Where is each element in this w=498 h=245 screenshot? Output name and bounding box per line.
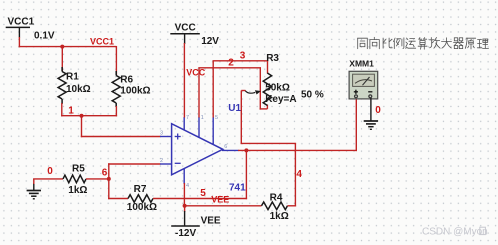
wire feedback vertical to output [245, 150, 247, 199]
svg-text:6: 6 [224, 144, 227, 150]
value 50 % [301, 90, 324, 101]
junction VEE node [183, 204, 187, 208]
value 1k&#937; [68, 185, 87, 196]
wire VCC to pin7 [183, 43, 185, 118]
node label 0 [47, 166, 53, 177]
wire pin4 to VEE junction [183, 183, 185, 207]
power VCC1 0.1V supply [6, 27, 30, 37]
wire up to multimeter terminal [355, 99, 357, 151]
svg-text:VCC: VCC [186, 68, 206, 78]
svg-text:50 %: 50 % [301, 90, 324, 101]
wire R6 top lead [115, 46, 117, 76]
svg-text:100kΩ: 100kΩ [120, 85, 150, 96]
wire R6 bottom lead [115, 106, 117, 116]
junction node 6 [107, 177, 111, 181]
wire node 4 vertical [294, 143, 296, 206]
pin number 5 [215, 115, 218, 121]
label R6 [120, 75, 133, 86]
wire R1 bottom lead [61, 103, 63, 116]
junction output node [244, 148, 248, 152]
node label 6 [102, 167, 108, 178]
svg-text:R3: R3 [266, 53, 279, 64]
op-amp minus input pin 2 [160, 163, 172, 165]
svg-text:VEE: VEE [211, 195, 229, 205]
svg-text:6: 6 [102, 167, 108, 178]
svg-text:3: 3 [160, 131, 163, 137]
power VCC 12V supply [170, 34, 200, 44]
op-amp output pin 6 [222, 149, 239, 151]
svg-text:0: 0 [47, 166, 53, 177]
resistor R6 [112, 71, 120, 107]
wire node6 down to R7 [108, 179, 128, 199]
svg-text:7: 7 [186, 115, 189, 121]
wire R4 right lead [288, 205, 297, 207]
svg-text:XMM1: XMM1 [349, 59, 374, 69]
label 741 [229, 183, 246, 194]
svg-text:VEE: VEE [201, 216, 221, 227]
svg-text:3: 3 [240, 50, 246, 61]
wire R7 to feedback corner [153, 198, 247, 200]
value 10k&#937; [66, 84, 91, 95]
title text (Chinese) [358, 37, 489, 49]
svg-text:741: 741 [229, 183, 246, 194]
value 0.1V [34, 30, 55, 41]
wire wiper vertical node 4 [241, 91, 297, 145]
svg-text:1: 1 [201, 115, 204, 121]
svg-text:50kΩ: 50kΩ [265, 83, 290, 94]
label VCC (black) [175, 22, 196, 33]
value 100k&#937; [127, 202, 157, 213]
op-amp offset pin 5 [212, 117, 214, 145]
value -12V [175, 228, 196, 239]
wire node 2 from pin1 [198, 68, 261, 118]
net label VEE (red) [211, 195, 229, 205]
wire VCC1 stem [18, 37, 20, 47]
svg-text:4: 4 [186, 183, 189, 189]
ground GND left [27, 183, 41, 199]
op-amp VCC pin 7 [183, 117, 185, 131]
svg-text:R6: R6 [120, 75, 133, 86]
wire node1 to plus input vertical [81, 116, 83, 138]
junction node 1 [80, 114, 84, 118]
svg-text:VCC1: VCC1 [90, 36, 114, 46]
watermark CSDN @Myon [422, 226, 488, 237]
label XMM1 [349, 59, 374, 69]
svg-text:-12V: -12V [175, 228, 196, 239]
svg-text:1: 1 [68, 106, 74, 117]
svg-text:R7: R7 [134, 184, 147, 195]
svg-text:5: 5 [200, 188, 206, 199]
label VCC1 (black) [8, 16, 35, 27]
label R7 [134, 184, 147, 195]
label U1 [228, 103, 241, 114]
resistor R1 [58, 67, 66, 104]
pin number 3 [160, 131, 163, 137]
svg-text:0.1V: 0.1V [34, 30, 55, 41]
pin number 2 [160, 158, 163, 164]
label VEE (black) [201, 216, 221, 227]
value 100k&#937; [120, 85, 150, 96]
label Key=A [265, 94, 296, 105]
node label 2 [228, 58, 234, 69]
net label VCC1 (red) [90, 36, 114, 46]
node label 0 at multimeter [375, 105, 381, 116]
label R5 [72, 164, 85, 175]
svg-text:12V: 12V [201, 36, 219, 47]
node label 1 [68, 106, 74, 117]
svg-text:1kΩ: 1kΩ [270, 211, 289, 222]
wire multimeter minus to ground [370, 98, 372, 121]
svg-text:R1: R1 [66, 71, 79, 82]
svg-text:0: 0 [375, 105, 381, 116]
wire VEE row to R4 [185, 205, 262, 207]
node label 3 [240, 50, 246, 61]
wire R1 top lead [61, 47, 63, 72]
wire node 3 to pot top [267, 61, 269, 74]
svg-text:R4: R4 [270, 192, 283, 203]
svg-text:5: 5 [215, 115, 218, 121]
svg-text:10kΩ: 10kΩ [66, 84, 91, 95]
svg-text:1kΩ: 1kΩ [68, 185, 87, 196]
wire to plus input horizontal [81, 136, 161, 138]
power VEE -12V supply [171, 206, 200, 226]
pin number 4 [186, 183, 189, 189]
svg-text:R5: R5 [72, 164, 85, 175]
wire R5 to node 6 [86, 178, 110, 180]
net label VCC (red) [186, 68, 206, 78]
pin number 6 [224, 144, 227, 150]
svg-text:VCC: VCC [175, 22, 196, 33]
pin number 1 [201, 115, 204, 121]
junction on VCC1 rail [60, 45, 64, 49]
resistor R7 [128, 195, 153, 203]
wire node 2 vertical to pot bottom [260, 68, 268, 110]
value 50k&#937; [265, 83, 290, 94]
resistor R5 [63, 175, 86, 183]
value 1k&#937; [270, 211, 289, 222]
potentiometer R3 [245, 73, 272, 106]
value 12V [201, 36, 219, 47]
svg-text:2: 2 [228, 58, 234, 69]
svg-text:Key=A: Key=A [265, 94, 296, 105]
svg-text:CSDN @Myon: CSDN @Myon [422, 226, 488, 237]
ground GND at multimeter [364, 121, 378, 129]
node label 5 [200, 188, 206, 199]
op-amp offset pin 1 [198, 117, 200, 138]
wire ground to R5 [33, 179, 63, 184]
wire node 3 from pin5 [213, 61, 269, 118]
pin number 7 [186, 115, 189, 121]
svg-text:VCC1: VCC1 [8, 16, 35, 27]
label R3 [266, 53, 279, 64]
svg-text:U1: U1 [228, 103, 241, 114]
wire wiper stub [241, 90, 245, 92]
op-amp plus input pin 3 [160, 136, 172, 138]
op-amp VEE pin 4 [183, 169, 185, 185]
wire VCC1 rail [19, 46, 117, 48]
label R4 [270, 192, 283, 203]
node label 4 [296, 169, 302, 180]
label R1 [66, 71, 79, 82]
svg-text:4: 4 [296, 169, 302, 180]
resistor R4 [262, 202, 288, 210]
multimeter XMM1 body [349, 71, 378, 99]
svg-text:2: 2 [160, 158, 163, 164]
op-amp U1 triangle [172, 124, 223, 175]
wire output to multimeter [238, 149, 357, 151]
svg-text:100kΩ: 100kΩ [127, 202, 157, 213]
wire node6 up to minus input [108, 163, 160, 180]
wire node 1 horizontal [61, 115, 117, 117]
